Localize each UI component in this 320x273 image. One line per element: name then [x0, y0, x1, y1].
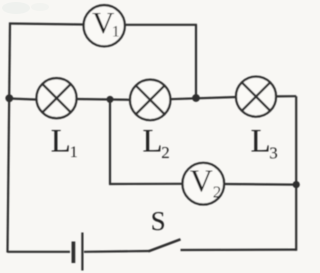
svg-text:1: 1 [112, 24, 120, 41]
wire battery to switch [84, 250, 150, 253]
wire V2 branch horizontal left [109, 183, 183, 185]
svg-text:L: L [142, 124, 162, 160]
wire left vertical [8, 23, 11, 253]
node B: junction between L1 and L2 (V2 tap) [107, 96, 114, 103]
svg-text:L: L [251, 124, 271, 160]
switch S lever [149, 239, 181, 251]
lamp L1 [37, 78, 77, 118]
wire between L1 and L2 [76, 98, 131, 101]
label L1 [51, 124, 78, 161]
wire between L2 and L3 [170, 97, 237, 99]
wire top-left horizontal [9, 24, 84, 25]
wire lamp-row left segment [9, 99, 38, 100]
svg-text:L: L [51, 124, 71, 160]
svg-text:3: 3 [269, 143, 278, 162]
wire L3 to right edge [276, 95, 297, 97]
lamp L2 [130, 80, 170, 120]
label L2 [142, 124, 169, 162]
lamp L3 [236, 77, 276, 117]
battery BT1 short thick plate [72, 242, 76, 264]
label L3 [251, 124, 278, 163]
wire top-right horizontal [125, 24, 198, 26]
wire bottom left of battery [8, 251, 71, 253]
svg-text:2: 2 [213, 183, 222, 202]
voltmeter U1 V1 [84, 5, 125, 47]
voltmeter U2 V2 [183, 162, 225, 204]
svg-text:2: 2 [161, 143, 170, 162]
battery BT1 long thin plate [81, 233, 83, 271]
wire right vertical [295, 96, 297, 251]
switch right contact wire [181, 249, 297, 252]
wire top-right vertical drop [195, 25, 197, 98]
svg-text:1: 1 [70, 144, 78, 161]
svg-text:V: V [190, 162, 213, 198]
node C: junction to V1 drop [192, 94, 200, 102]
svg-text:S: S [151, 206, 166, 236]
wire V2 branch vertical [109, 99, 111, 184]
node A: left junction [5, 94, 13, 102]
node D: right junction [293, 181, 300, 188]
wire V2 branch horizontal right [224, 183, 296, 186]
